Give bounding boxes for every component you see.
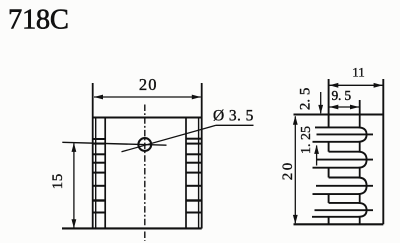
svg-text:20: 20 [280,160,296,180]
svg-text:9. 5: 9. 5 [331,88,351,103]
svg-text:1. 25: 1. 25 [299,126,314,154]
svg-text:Ø 3. 5: Ø 3. 5 [213,108,254,125]
svg-text:20: 20 [139,75,158,94]
svg-text:718C: 718C [8,4,69,35]
svg-text:15: 15 [50,173,66,189]
svg-text:2. 5: 2. 5 [298,88,314,111]
svg-text:11: 11 [352,64,365,79]
